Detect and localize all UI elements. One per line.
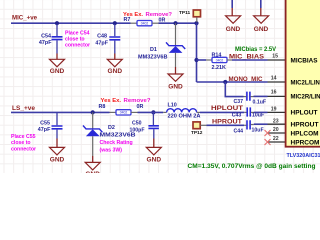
svg-text:HPROUT: HPROUT xyxy=(291,122,319,128)
inductor L10 xyxy=(163,109,200,113)
junction at D2 tap xyxy=(91,110,95,114)
wire from R7 to node xyxy=(159,22,197,24)
junction at C48 tap xyxy=(113,21,117,25)
ground top 2 xyxy=(254,8,269,23)
svg-text:GND: GND xyxy=(85,172,100,173)
test point TP11 xyxy=(193,10,200,22)
no-ERC cross on pin 22 xyxy=(265,139,271,145)
wire stub to top ground 1 xyxy=(231,0,233,8)
svg-text:0R: 0R xyxy=(137,104,144,110)
junction at C37 tap xyxy=(223,80,227,84)
svg-text:connector: connector xyxy=(11,146,36,152)
svg-text:C44: C44 xyxy=(234,129,244,135)
svg-text:16: 16 xyxy=(271,90,277,96)
svg-text:LS_+ve: LS_+ve xyxy=(12,105,36,112)
junction at main node / TP11 xyxy=(194,21,198,25)
wire C44 to pin 23 xyxy=(254,123,268,125)
svg-text:R7: R7 xyxy=(124,17,131,23)
wire LS_+ve left segment xyxy=(11,111,110,113)
svg-text:100pF: 100pF xyxy=(130,128,145,134)
wire R8 to C50 tap and L10 xyxy=(138,111,164,113)
svg-text:GND: GND xyxy=(50,69,65,75)
svg-text:TLV320AIC31: TLV320AIC31 xyxy=(287,153,320,159)
capacitor C44 xyxy=(244,120,254,129)
svg-text:CM=1.35V, 0.707Vrms @ 0dB gain: CM=1.35V, 0.707Vrms @ 0dB gain setting xyxy=(188,163,316,170)
svg-text:GND: GND xyxy=(50,157,65,163)
svg-text:D2: D2 xyxy=(108,125,115,131)
svg-text:GND: GND xyxy=(108,69,123,75)
svg-text:HPLCOM: HPLCOM xyxy=(291,131,319,137)
svg-text:MONO_MIC: MONO_MIC xyxy=(229,77,264,83)
svg-text:(was 3W): (was 3W) xyxy=(100,147,123,153)
wire C43 to pin 19 xyxy=(254,111,268,113)
junction at D1 tap xyxy=(173,21,177,25)
svg-text:MM3Z3V6B: MM3Z3V6B xyxy=(138,54,168,60)
test point TP12 xyxy=(193,122,200,129)
capacitor C50 xyxy=(148,113,159,139)
wire TP12 to C44 xyxy=(200,124,206,126)
svg-text:0.1uF: 0.1uF xyxy=(253,99,267,105)
svg-text:220 OHM 2A: 220 OHM 2A xyxy=(168,114,201,120)
svg-text:10uF: 10uF xyxy=(252,113,264,119)
svg-text:20: 20 xyxy=(273,127,279,133)
ground under C50 xyxy=(146,139,161,155)
wire MIC_BIAS xyxy=(232,59,268,61)
svg-text:C55: C55 xyxy=(40,120,50,126)
svg-text:19: 19 xyxy=(271,106,277,112)
no-ERC cross on pin 20 xyxy=(265,130,271,136)
svg-text:Place C54: Place C54 xyxy=(65,30,90,36)
ground under C48 xyxy=(107,54,122,67)
pin 19 xyxy=(268,111,286,113)
svg-text:C43: C43 xyxy=(232,112,242,118)
svg-text:2.21K: 2.21K xyxy=(212,65,226,71)
wire stub to top ground 2 xyxy=(260,0,262,8)
svg-text:Check Rating: Check Rating xyxy=(100,140,133,146)
op-amp U? IC body TLV320AIC xyxy=(286,0,320,147)
wire vertical from node down to MONO_MIC xyxy=(196,23,198,82)
svg-text:14: 14 xyxy=(271,75,277,81)
svg-text:GND: GND xyxy=(168,84,183,90)
capacitor C43 xyxy=(244,107,254,116)
svg-text:C37: C37 xyxy=(234,99,244,105)
svg-text:15: 15 xyxy=(272,54,278,60)
svg-text:MIC2R/LINE2R: MIC2R/LINE2R xyxy=(291,95,320,101)
svg-text:MICbias = 2.5V: MICbias = 2.5V xyxy=(235,47,276,53)
svg-text:22: 22 xyxy=(273,136,279,142)
svg-text:HPLOUT: HPLOUT xyxy=(211,106,243,112)
pin 14 xyxy=(268,81,286,83)
svg-text:10uF: 10uF xyxy=(252,128,264,134)
junction at R14 tap xyxy=(194,58,198,62)
svg-text:47pF: 47pF xyxy=(38,127,51,133)
ground top 1 xyxy=(226,8,241,23)
wire L10 to C43 xyxy=(200,111,244,113)
ground under C55 xyxy=(50,139,65,155)
svg-text:MICBIAS: MICBIAS xyxy=(291,58,318,64)
svg-text:MIC_+ve: MIC_+ve xyxy=(12,15,38,22)
svg-text:C48: C48 xyxy=(97,33,107,39)
svg-text:0402: 0402 xyxy=(120,111,128,115)
svg-text:L10: L10 xyxy=(168,102,177,108)
svg-text:HPRCOM: HPRCOM xyxy=(291,140,320,146)
svg-text:47pF: 47pF xyxy=(39,40,52,46)
svg-text:47pF: 47pF xyxy=(95,40,108,46)
junction at C50 tap xyxy=(151,110,155,114)
diode D2 zener MM3Z3V6B xyxy=(83,112,102,156)
pin 22 xyxy=(268,141,286,143)
svg-text:close to: close to xyxy=(11,140,31,146)
svg-text:GND: GND xyxy=(254,27,269,33)
svg-text:0402: 0402 xyxy=(216,59,224,63)
wire MIC_+ve left segment xyxy=(11,22,131,24)
wire C37 to pin 16 xyxy=(254,95,268,97)
svg-text:TP11: TP11 xyxy=(179,10,191,16)
svg-text:connector: connector xyxy=(65,43,90,49)
resistor R8 xyxy=(110,110,138,115)
wire MONO_MIC xyxy=(197,81,268,83)
pin 15 xyxy=(268,59,286,61)
svg-text:C54: C54 xyxy=(41,34,51,40)
svg-text:0402: 0402 xyxy=(141,21,149,25)
capacitor C55 xyxy=(52,113,63,139)
capacitor C37 xyxy=(244,92,254,101)
svg-text:TP12: TP12 xyxy=(191,130,203,136)
svg-text:GND: GND xyxy=(226,27,241,33)
svg-text:C50: C50 xyxy=(132,121,142,127)
pin 16 xyxy=(268,95,286,97)
ground under D2 xyxy=(85,156,100,170)
diode D1 zener MM3Z3V6B xyxy=(166,23,185,67)
svg-text:close to: close to xyxy=(65,37,85,43)
svg-text:GND: GND xyxy=(147,157,162,163)
resistor R7 xyxy=(131,21,159,26)
svg-text:MIC2L/LINE2L: MIC2L/LINE2L xyxy=(291,80,320,86)
svg-text:D1: D1 xyxy=(150,47,157,53)
junction at C54 tap xyxy=(55,21,59,25)
svg-text:Place C55: Place C55 xyxy=(11,134,36,140)
pin 23 xyxy=(268,123,286,125)
capacitor C48 xyxy=(109,24,120,54)
ground under D1 xyxy=(168,67,183,81)
resistor R14 xyxy=(197,57,233,62)
svg-text:HPLOUT: HPLOUT xyxy=(291,110,318,116)
svg-text:R8: R8 xyxy=(99,104,106,110)
capacitor C54 xyxy=(52,24,63,54)
wire from MONO_MIC down to C37 xyxy=(225,82,243,97)
svg-text:23: 23 xyxy=(273,118,279,124)
pin 20 xyxy=(268,132,286,134)
ground under C54 xyxy=(50,54,65,67)
